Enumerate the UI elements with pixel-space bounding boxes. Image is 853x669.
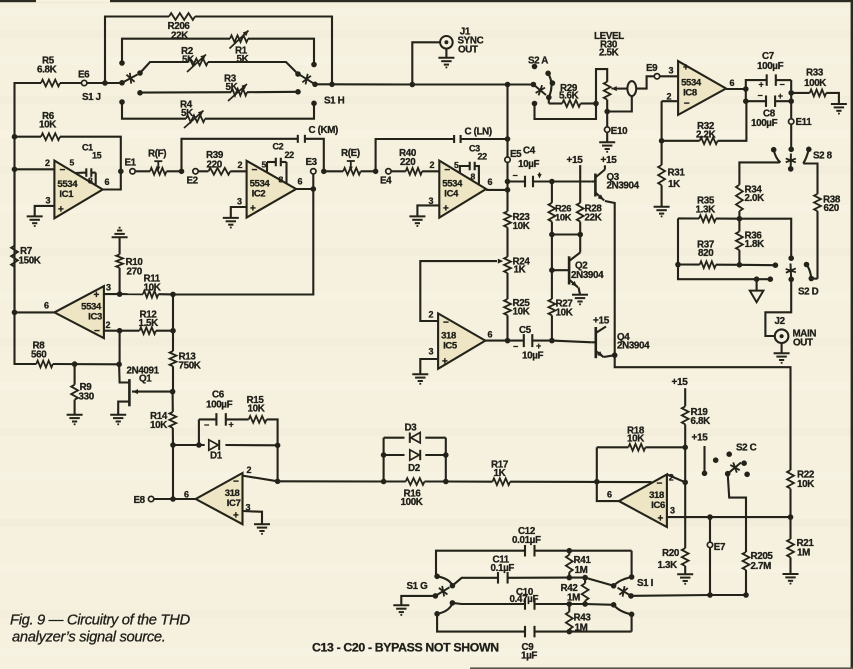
- wire R26 to Q2 base node: [551, 235, 553, 271]
- junction R205 bottom: [743, 592, 749, 598]
- wire D3 loop right: [445, 438, 447, 482]
- junction node E6: [102, 80, 108, 86]
- svg-text:S1 H: S1 H: [324, 96, 345, 107]
- svg-text:S2 C: S2 C: [736, 442, 757, 453]
- wire IC1 pin2 input: [15, 168, 55, 170]
- terminal E5: [505, 157, 510, 162]
- junction IC6 output / R17 node: [594, 479, 600, 485]
- svg-text:S1 I: S1 I: [637, 578, 654, 589]
- wire IC2 output up to E3: [312, 174, 314, 189]
- ground R31: [654, 206, 670, 208]
- junction R26 bottom: [549, 232, 555, 238]
- svg-text:E6: E6: [78, 70, 90, 81]
- svg-text:10K: 10K: [513, 221, 530, 232]
- svg-text:−: −: [513, 341, 518, 351]
- svg-text:E11: E11: [796, 117, 813, 128]
- svg-text:R(F): R(F): [148, 149, 166, 160]
- svg-text:10K: 10K: [627, 434, 644, 445]
- svg-text:E1: E1: [125, 158, 137, 169]
- svg-text:−: −: [252, 165, 258, 176]
- terminal E6: [82, 80, 87, 85]
- svg-text:D2: D2: [408, 463, 421, 474]
- svg-text:6: 6: [730, 78, 735, 88]
- svg-text:100µF: 100µF: [757, 61, 784, 72]
- svg-text:6: 6: [488, 330, 493, 340]
- svg-text:S1 G: S1 G: [407, 581, 429, 592]
- wire R6 feedback row: [15, 136, 42, 138]
- wire R17 row into IC6 minus input: [597, 481, 652, 483]
- terminal E2: [193, 169, 198, 174]
- svg-text:100K: 100K: [804, 78, 826, 89]
- junction IC6 pin2 node: [682, 480, 688, 486]
- capacitor C12 0.01uF: [524, 545, 526, 557]
- wire E11 column: [790, 101, 792, 119]
- terminal E7: [707, 542, 712, 547]
- svg-text:0.47µF: 0.47µF: [510, 594, 539, 605]
- svg-text:8: 8: [279, 175, 284, 185]
- ground IC4 pin3: [409, 215, 425, 217]
- compensation capacitor C2 22 (pins 5-8): [266, 162, 268, 172]
- wire R30 bottom to E10: [606, 100, 608, 127]
- ground IC1 pin3: [27, 215, 43, 217]
- wire C8 row: [745, 89, 747, 101]
- wire E10 to ground: [606, 132, 608, 142]
- capacitor C(LN): [453, 135, 455, 143]
- wire D1 row: [173, 444, 205, 446]
- svg-text:2: 2: [106, 320, 111, 330]
- wire IC3 pin3: [104, 293, 120, 295]
- wire IC3 output to rail: [15, 311, 55, 313]
- svg-text:+: +: [250, 204, 256, 215]
- op-amp IC1 5534: [54, 161, 102, 219]
- svg-text:−: −: [684, 99, 690, 110]
- capacitor C6 100uF: [199, 418, 217, 420]
- svg-text:R20: R20: [662, 548, 680, 559]
- svg-text:1µF: 1µF: [521, 651, 537, 662]
- svg-text:E10: E10: [611, 126, 628, 137]
- svg-text:15: 15: [92, 150, 102, 160]
- resistor R19 6.8K: [682, 406, 689, 424]
- svg-text:3: 3: [429, 196, 434, 206]
- capacitor C9 1uF: [524, 626, 526, 638]
- svg-text:5: 5: [262, 159, 267, 169]
- wire node E6 row: [15, 83, 42, 137]
- wire S2A bottom contact loop: [535, 104, 597, 120]
- svg-text:6: 6: [105, 177, 110, 187]
- svg-text:C (KM): C (KM): [309, 125, 339, 136]
- wire IC7 pin2 row to D2 network: [278, 480, 384, 482]
- potentiometer R4 5K: [186, 115, 205, 122]
- op-amp IC8 5534: [678, 61, 726, 115]
- switch S2D: [773, 262, 779, 268]
- svg-text:IC6: IC6: [651, 500, 665, 511]
- wire R26/R28 bottom tie: [552, 233, 580, 235]
- ground R21: [783, 573, 799, 575]
- wire C10 row to S1I: [585, 603, 614, 606]
- svg-text:3: 3: [670, 505, 675, 515]
- svg-text:3: 3: [106, 282, 111, 292]
- resistor R20 1.3K: [682, 548, 689, 566]
- svg-text:10K: 10K: [556, 307, 573, 318]
- potentiometer R3 5K: [231, 89, 247, 96]
- wire IC6 pin3 row: [667, 516, 791, 518]
- svg-text:E8: E8: [134, 495, 146, 506]
- wire E5 column: [506, 85, 508, 140]
- svg-text:220: 220: [207, 159, 223, 170]
- svg-text:−: −: [204, 420, 209, 430]
- svg-text:1K: 1K: [668, 179, 680, 190]
- resistor R7 150K: [13, 169, 15, 245]
- resistor R16 100K: [406, 478, 425, 485]
- wire to R17: [446, 480, 493, 482]
- svg-text:10K: 10K: [797, 479, 814, 490]
- transistor Q3 2N3904: [594, 174, 597, 197]
- resistor R8 560: [36, 361, 53, 368]
- wire wiper jack to E9: [636, 76, 654, 88]
- potentiometer R(E): [343, 168, 360, 175]
- svg-text:5K: 5K: [237, 54, 249, 65]
- junction R28 bottom / Q2 collector: [577, 232, 583, 238]
- wire R30 wiper to jack: [618, 88, 628, 90]
- resistor R32 2.2K feedback: [659, 138, 665, 144]
- potentiometer R(F): [135, 170, 150, 172]
- wire C9 row: [437, 614, 525, 632]
- wire S2B right contact to R38: [803, 164, 817, 194]
- svg-text:22: 22: [478, 151, 488, 161]
- ground J1: [438, 57, 454, 59]
- svg-text:0.01µF: 0.01µF: [512, 535, 541, 546]
- svg-text:3: 3: [46, 196, 51, 206]
- wire rail to R8 row: [15, 312, 37, 364]
- svg-text:270: 270: [127, 267, 143, 278]
- wire R11-R12 tie: [172, 294, 174, 330]
- wire line 4 (R3 row): [140, 91, 231, 94]
- junction D2 network left: [381, 479, 387, 485]
- ground R20: [677, 573, 693, 575]
- resistor R41 1M: [567, 548, 573, 554]
- svg-text:560: 560: [31, 350, 47, 361]
- svg-text:6: 6: [44, 301, 49, 311]
- switch S2B: [771, 147, 777, 153]
- svg-text:+: +: [58, 205, 64, 216]
- svg-text:IC5: IC5: [443, 341, 458, 352]
- diode D1: [209, 440, 218, 450]
- wire S2D common to J2: [765, 279, 791, 336]
- svg-text:100µF: 100µF: [751, 118, 778, 129]
- junction R206 right: [329, 82, 335, 88]
- svg-text:J2: J2: [775, 316, 786, 327]
- svg-text:C2: C2: [273, 142, 284, 152]
- wire line 5 (R4 row): [122, 102, 186, 119]
- potentiometer R30 2.5K LEVEL: [604, 82, 611, 100]
- diode D2: [410, 450, 419, 460]
- wire IC6 output: [597, 482, 619, 501]
- svg-text:2.5K: 2.5K: [599, 48, 619, 59]
- wire R19 node to IC6 pin2: [684, 447, 686, 482]
- wire C(LN) row: [376, 139, 455, 171]
- junction IC8 output: [743, 86, 749, 92]
- svg-text:IC7: IC7: [227, 498, 241, 509]
- junction R34/R35/R36 node: [737, 216, 743, 222]
- resistor R25 10K: [504, 299, 511, 315]
- svg-text:5: 5: [70, 158, 75, 168]
- svg-text:+15: +15: [593, 316, 610, 327]
- svg-text:3: 3: [237, 197, 242, 207]
- svg-text:1M: 1M: [575, 565, 588, 576]
- wire IC4 output: [486, 189, 507, 191]
- wire E8 row: [154, 498, 196, 500]
- ground E10: [599, 141, 615, 143]
- svg-text:150K: 150K: [19, 256, 41, 267]
- svg-text:OUT: OUT: [793, 338, 813, 349]
- svg-text:E2: E2: [187, 175, 199, 186]
- op-amp IC5 318: [438, 313, 485, 368]
- svg-text:10µF: 10µF: [518, 159, 539, 170]
- wire Q4 emitter to output rail: [604, 355, 615, 357]
- svg-text:10K: 10K: [144, 282, 161, 293]
- terminal E4: [386, 169, 391, 174]
- compensation capacitor C3 22 (pins 5-8): [460, 166, 470, 173]
- svg-text:+: +: [778, 91, 783, 101]
- wire IC8 feedback loop: [661, 101, 663, 141]
- wire +15 to R28: [579, 165, 581, 203]
- resistor R29 5.6K: [548, 97, 550, 103]
- svg-text:1K: 1K: [494, 468, 506, 479]
- junction node E3: [321, 169, 327, 175]
- svg-text:100µF: 100µF: [206, 400, 233, 411]
- wire Q2 base: [552, 269, 569, 271]
- svg-text:R(E): R(E): [341, 148, 360, 159]
- resistor R39 220: [198, 170, 208, 172]
- svg-text:−: −: [758, 91, 763, 101]
- compensation capacitor C1 15 (pins 5-8): [75, 172, 86, 174]
- svg-text:+: +: [94, 290, 100, 301]
- svg-text:1M: 1M: [797, 548, 810, 559]
- svg-text:−: −: [513, 171, 518, 181]
- junction R42 top: [582, 575, 588, 581]
- resistor R14 10K: [172, 392, 174, 412]
- wire IC2 pin3 ground: [231, 207, 247, 218]
- wire C5 to Q4 base: [552, 341, 592, 343]
- svg-text:IC4: IC4: [444, 189, 459, 200]
- resistor R34 2.0K: [736, 185, 743, 211]
- svg-text:+: +: [536, 341, 541, 351]
- svg-text:2: 2: [430, 160, 435, 170]
- svg-text:10K: 10K: [248, 403, 265, 414]
- wire Q1 drain: [119, 364, 129, 382]
- svg-text:−: −: [780, 79, 785, 89]
- svg-text:R33: R33: [806, 68, 824, 79]
- svg-text:+: +: [683, 63, 689, 74]
- svg-text:5: 5: [454, 160, 459, 170]
- resistor R9 330: [74, 364, 76, 385]
- resistor R27 10K: [551, 270, 553, 299]
- ground IC7 pin3: [254, 523, 270, 525]
- switch S1G: [434, 574, 440, 580]
- wire C4 to Q3 base: [552, 180, 592, 182]
- wire R31 column: [661, 141, 663, 165]
- junction R29-R30: [593, 101, 599, 107]
- junction left rail: [12, 134, 18, 140]
- resistor R38 620: [814, 194, 821, 211]
- resistor R205 2.7M: [743, 552, 750, 570]
- capacitor C5 10uF: [508, 340, 524, 342]
- junction C6 left: [196, 442, 202, 448]
- junction R12 right node: [170, 328, 176, 334]
- junction E8 row / R14 column: [170, 496, 176, 502]
- resistor R18 10K: [597, 446, 629, 448]
- wire D3 loop left: [383, 438, 385, 482]
- wire IC5 output: [485, 340, 507, 342]
- wire C7 row: [746, 80, 767, 89]
- transistor Q1 2N4091 JFET: [128, 379, 131, 406]
- svg-text:1.3K: 1.3K: [696, 204, 716, 215]
- svg-text:6: 6: [184, 489, 189, 499]
- terminal E9: [654, 74, 659, 79]
- junction R9 top: [72, 361, 78, 367]
- capacitor C10 0.47uF: [524, 598, 526, 610]
- junction R41 bottom: [567, 575, 573, 581]
- resistor R36 1.8K: [736, 232, 743, 251]
- junction R30 bottom: [604, 109, 610, 115]
- junction Q2 base node: [549, 267, 555, 273]
- svg-text:5.6K: 5.6K: [559, 91, 579, 102]
- transistor Q4 2N3904: [594, 327, 597, 358]
- svg-text:Fig. 9 — Circuitry of the THD: Fig. 9 — Circuitry of the THD: [10, 613, 190, 629]
- ground IC5 pin3: [412, 373, 428, 375]
- capacitor C4 10uF: [508, 180, 526, 182]
- wire C7/C8 right junction to R33: [790, 80, 792, 93]
- wire C(KM) row: [182, 139, 298, 172]
- wire E9 to IC8 pin3: [660, 75, 678, 77]
- wire J1 tap: [412, 42, 440, 84]
- junction R11/R12 right node: [170, 292, 176, 298]
- jack tip (level wiper): [627, 81, 636, 96]
- op-amp IC7 318: [196, 473, 243, 524]
- svg-text:IC3: IC3: [88, 312, 102, 323]
- svg-text:2.2K: 2.2K: [696, 130, 716, 141]
- junction IC5 output / R25 bottom: [505, 338, 511, 344]
- junction node E2: [179, 169, 185, 175]
- wire main row S1H to S2A: [315, 83, 332, 85]
- svg-text:+15: +15: [692, 433, 709, 444]
- wire left rail: [13, 137, 15, 170]
- resistor R35 1.3K: [678, 217, 699, 219]
- junction R8/Q1 node: [116, 362, 122, 368]
- svg-text:D3: D3: [405, 423, 418, 434]
- svg-text:22K: 22K: [585, 212, 602, 223]
- svg-text:2: 2: [669, 472, 674, 482]
- resistor R206 22K: [169, 13, 195, 20]
- resistor R33 100K: [791, 92, 810, 94]
- svg-text:+15: +15: [672, 377, 689, 388]
- svg-text:R31: R31: [668, 168, 686, 179]
- wire C11 row to S1I: [585, 578, 614, 586]
- junction Q1 gate / R13-R14 node: [170, 389, 176, 395]
- wire R35/R37 left rail: [678, 218, 757, 279]
- svg-text:2: 2: [247, 465, 252, 475]
- switch S1I: [629, 574, 635, 580]
- resistor R43 1M: [568, 604, 570, 612]
- junction IC3 pin2 node: [117, 328, 123, 334]
- capacitor C8 100uF: [765, 95, 767, 107]
- op-amp IC3 5534: [54, 286, 104, 338]
- ground above R10: [119, 227, 121, 229]
- svg-text:−: −: [94, 326, 100, 337]
- svg-text:S2 D: S2 D: [798, 286, 819, 297]
- wire IC1 pin3 ground: [35, 206, 55, 216]
- svg-text:2N3904: 2N3904: [617, 341, 650, 352]
- svg-text:E4: E4: [380, 175, 392, 186]
- off-page open arrow: [756, 279, 758, 290]
- wire +15 to R19: [684, 388, 686, 406]
- resistor R28 22K: [577, 203, 584, 222]
- svg-text:IC2: IC2: [252, 189, 266, 200]
- svg-text:10K: 10K: [513, 306, 530, 317]
- wire IC2 feedback to R11/R12 node: [173, 189, 313, 295]
- resistor R5 6.8K: [41, 80, 60, 87]
- junction IC3 pin3 node: [117, 291, 123, 297]
- svg-text:6: 6: [488, 177, 493, 187]
- svg-text:OUT: OUT: [458, 44, 478, 55]
- wire R37 row to S2D left contact: [739, 264, 775, 267]
- resistor R6 10K: [41, 133, 60, 140]
- wire IC8 pin2: [662, 100, 679, 102]
- wire Q2 emitter to ground: [579, 287, 581, 294]
- junction C5/R27 node: [549, 338, 555, 344]
- svg-text:5K: 5K: [182, 54, 194, 65]
- junction R43 bottom: [567, 629, 573, 635]
- junction pin3/E7: [707, 514, 713, 520]
- ground R33: [831, 103, 847, 105]
- resistor R40 220: [391, 170, 406, 172]
- resistor R21 1M: [789, 517, 791, 539]
- wire jack sleeve to R30 bottom: [607, 96, 632, 111]
- svg-text:330: 330: [79, 392, 95, 403]
- svg-text:S2 A: S2 A: [528, 56, 548, 67]
- svg-text:220: 220: [400, 157, 416, 168]
- svg-text:2: 2: [45, 158, 50, 168]
- wire line 3 (R2 row): [140, 62, 188, 73]
- wire R14 column to E8 row: [172, 445, 174, 499]
- junction E7 bottom: [707, 592, 713, 598]
- wire top line 1 (R206 row): [105, 17, 169, 84]
- junction J1 tap: [410, 82, 416, 88]
- svg-text:+: +: [229, 420, 234, 430]
- resistor R13 750K: [172, 331, 174, 351]
- junction E5 column top: [505, 82, 511, 88]
- svg-text:2N3904: 2N3904: [607, 181, 640, 192]
- resistor R42 1M: [584, 578, 586, 584]
- junction pin3/R22-R21: [788, 514, 794, 520]
- wire C12 row: [436, 551, 525, 576]
- svg-text:5K: 5K: [181, 108, 193, 119]
- wire line 2 (R1 row): [122, 39, 230, 63]
- jack J1 SYNC OUT: [440, 36, 453, 49]
- resistor R17 1K: [493, 478, 511, 485]
- junction C4/R26 node: [549, 179, 555, 185]
- resistor R10 270: [119, 237, 121, 254]
- svg-text:E3: E3: [306, 157, 318, 168]
- svg-text:2: 2: [429, 310, 434, 320]
- svg-text:750K: 750K: [179, 361, 201, 372]
- svg-text:+: +: [442, 356, 448, 367]
- ground R9: [67, 414, 83, 416]
- junction R37 left / rail: [675, 262, 681, 268]
- svg-text:−: −: [60, 165, 66, 176]
- svg-text:C5: C5: [519, 325, 532, 336]
- svg-text:C (LN): C (LN): [465, 127, 492, 138]
